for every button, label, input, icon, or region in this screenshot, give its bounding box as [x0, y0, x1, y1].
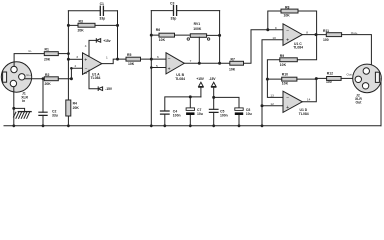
wire R1 to feedback vertical — [58, 53, 68, 55]
resistor R6 10K — [156, 28, 175, 42]
svg-text:R6: R6 — [156, 28, 160, 32]
svg-text:10K: 10K — [280, 63, 287, 67]
junction C7 on rail — [189, 124, 192, 127]
svg-text:R5: R5 — [127, 53, 131, 57]
svg-text:Out: Out — [356, 101, 363, 105]
svg-text:+15V: +15V — [196, 77, 204, 81]
wire U1C out down to R9 — [297, 35, 316, 60]
svg-text:5: 5 — [156, 64, 158, 68]
svg-text:7: 7 — [190, 59, 192, 63]
wire U1C pin10 ground vertical — [262, 40, 283, 126]
pin number 11 — [84, 71, 87, 75]
junction R10 left — [266, 78, 269, 81]
svg-text:4: 4 — [85, 44, 87, 48]
wire U1B pin5 stub — [151, 67, 166, 69]
pin number 2 — [75, 64, 77, 68]
junction R10 right / U1D out — [315, 77, 318, 80]
svg-text:R2: R2 — [45, 73, 49, 77]
svg-text:TL084: TL084 — [293, 46, 303, 50]
resistor R8 10K feedback U1C — [268, 5, 317, 34]
resistor R7 10K — [229, 58, 244, 72]
junction C4 on rail — [163, 124, 166, 127]
node label In- — [29, 49, 33, 53]
junction node C2 tap — [42, 77, 45, 80]
junction pin3 node — [67, 58, 70, 61]
svg-text:100n: 100n — [173, 114, 181, 118]
junction wiper/output — [198, 62, 201, 65]
wire U1A output jog to R5 row — [102, 59, 126, 64]
junction pin5 — [150, 66, 153, 69]
junction pin1/ground — [12, 107, 15, 110]
wire XLR pin2 to R2 (In+) — [25, 78, 44, 80]
svg-text:R12: R12 — [327, 72, 333, 76]
svg-text:R8: R8 — [285, 5, 289, 9]
svg-text:100n: 100n — [220, 114, 228, 118]
junction C8 on rail — [238, 124, 241, 127]
junction R3 right — [116, 24, 119, 27]
wire 0V rail bottom — [4, 125, 381, 127]
svg-text:2: 2 — [75, 64, 77, 68]
junction RV1 right — [218, 34, 221, 37]
svg-text:R1: R1 — [45, 48, 49, 52]
svg-text:-15V: -15V — [105, 87, 113, 91]
svg-text:TL084: TL084 — [175, 77, 185, 81]
wire +15V to C4 C7 — [165, 97, 201, 111]
capacitor C8 10u polarized — [235, 108, 252, 126]
pin number 6 — [157, 55, 159, 59]
junction R5/pin6 — [150, 58, 153, 61]
node label Out+ — [351, 31, 358, 35]
svg-text:C1: C1 — [100, 2, 104, 6]
wire R3 leads — [68, 24, 117, 26]
svg-text:10K: 10K — [282, 81, 289, 85]
op-amp U1:C TL084 — [283, 24, 303, 50]
junction R6 left — [150, 34, 153, 37]
svg-text:+: + — [286, 38, 289, 44]
svg-text:12: 12 — [270, 102, 274, 106]
svg-text:-15V: -15V — [209, 77, 217, 81]
svg-text:10K: 10K — [229, 68, 236, 72]
svg-text:−: − — [286, 95, 289, 101]
resistor R4 20K — [66, 100, 80, 116]
svg-text:33p: 33p — [99, 16, 105, 20]
svg-text:+: + — [168, 66, 171, 72]
wire U1C output — [302, 34, 326, 36]
wire R2 to U1A pin2 vertical — [58, 68, 82, 78]
wire R11 to XLR out pin2 (Out+) — [342, 35, 372, 67]
svg-text:R9: R9 — [280, 54, 284, 58]
svg-text:+: + — [286, 105, 289, 111]
wire R7 up to U1C pin9 row — [244, 30, 284, 64]
wire XLR pin3 to R1 (In-) — [14, 54, 44, 67]
svg-text:C3: C3 — [170, 2, 174, 6]
power flag -15V bottom — [209, 77, 217, 97]
svg-text:Out+: Out+ — [351, 31, 358, 35]
junction feedback/R5 row — [116, 58, 119, 61]
svg-text:33p: 33p — [171, 16, 177, 20]
junction U1B vertical on rail — [150, 124, 153, 127]
capacitor C2 33p — [39, 79, 58, 126]
op-amp U1:A TL084 — [83, 53, 102, 80]
junction ground vertical on rail — [261, 124, 264, 127]
svg-text:10u: 10u — [246, 112, 252, 116]
junction R4 on rail — [67, 124, 70, 127]
resistor R2 20K — [44, 73, 58, 86]
wire XLR pin1 down — [13, 87, 15, 126]
label J2 XLR Out — [355, 93, 362, 104]
power flag +15V — [96, 39, 110, 43]
pin number 5 — [156, 64, 158, 68]
svg-text:20K: 20K — [44, 57, 51, 61]
capacitor C4 100n — [161, 110, 181, 126]
svg-text:In: In — [22, 99, 25, 103]
svg-text:20K: 20K — [73, 106, 80, 110]
svg-text:+: + — [84, 57, 87, 63]
svg-text:8: 8 — [306, 31, 308, 35]
resistor R3 20K — [78, 20, 96, 33]
wire R4 to rail — [67, 116, 69, 126]
svg-text:In-: In- — [29, 49, 33, 53]
junction C5 on rail — [212, 124, 215, 127]
pin number 7 — [190, 59, 192, 63]
junction -15V/C5 — [212, 96, 215, 99]
svg-text:13: 13 — [270, 94, 274, 98]
wire U1A pin3 stub — [68, 58, 82, 60]
svg-text:Out-: Out- — [347, 73, 353, 77]
label J1 XLR In — [21, 92, 28, 103]
pin number 13 — [270, 94, 274, 98]
resistor R10 10K feedback U1D — [282, 73, 297, 86]
svg-text:R7: R7 — [231, 58, 235, 62]
junction R3 left — [67, 24, 70, 27]
capacitor C7 10u polarized — [186, 97, 203, 126]
capacitor C3 33p — [151, 2, 219, 21]
wire U1A pin11 to -15V flag — [89, 70, 98, 89]
resistor R11 100 — [323, 29, 342, 42]
op-amp U1:D TL084 — [283, 91, 309, 116]
pin number 4 — [85, 44, 87, 48]
svg-text:6: 6 — [157, 55, 159, 59]
svg-text:100K: 100K — [193, 27, 202, 31]
pin number 10 — [272, 36, 276, 40]
svg-text:In+: In+ — [27, 73, 32, 77]
power flag +15V bottom — [196, 77, 204, 97]
svg-text:TL084: TL084 — [299, 112, 309, 116]
junction C2 on rail — [42, 124, 45, 127]
svg-text:10K: 10K — [128, 62, 135, 66]
svg-text:11: 11 — [84, 71, 87, 75]
junction pin1 on rail — [12, 124, 15, 127]
svg-text:R11: R11 — [323, 29, 329, 33]
wire feedback vertical down to R4 — [67, 11, 69, 100]
svg-text:−: − — [168, 57, 171, 63]
resistor R5 10K — [126, 53, 141, 66]
XLR connector J1 In — [1, 62, 31, 92]
junction C3RV1/output — [218, 62, 221, 65]
pin number 1 — [106, 55, 108, 59]
wire C1 right down to R5 row — [117, 11, 119, 59]
junction pin9/R8 — [266, 28, 269, 31]
wire U1A pin4 to +15V flag — [89, 40, 96, 56]
svg-text:3: 3 — [76, 55, 78, 59]
wire U1B output row — [184, 62, 230, 64]
trimmer RV1 100K — [187, 22, 210, 63]
wire rail up right side to XLR shell — [380, 78, 382, 125]
op-amp U1:B TL084 — [166, 53, 185, 81]
pin number 14 — [307, 97, 311, 101]
svg-text:10: 10 — [272, 36, 276, 40]
svg-text:33u: 33u — [52, 114, 58, 118]
svg-text:10K: 10K — [159, 38, 166, 42]
capacitor C5 100n — [209, 109, 227, 126]
svg-text:10K: 10K — [284, 14, 291, 18]
junction pin2 corner — [70, 67, 73, 70]
XLR connector J2 Out — [353, 64, 382, 93]
svg-text:14: 14 — [307, 97, 311, 101]
junction R2 right — [70, 77, 73, 80]
pin number 12 — [270, 102, 274, 106]
junction U1C out — [315, 33, 318, 36]
svg-text:R10: R10 — [282, 73, 288, 77]
wire -15V node to C5 C8 — [214, 97, 239, 109]
wire U1D output up to Out- row — [302, 79, 316, 102]
node label In+ — [27, 73, 32, 77]
resistor R1 20K — [44, 48, 58, 62]
ground chassis symbol — [14, 108, 32, 118]
svg-text:10u: 10u — [197, 112, 203, 116]
wire U1D pin12 stub — [262, 105, 283, 107]
node label Out- — [347, 73, 353, 77]
svg-text:20K: 20K — [78, 28, 85, 32]
svg-text:RV1: RV1 — [194, 22, 201, 26]
wire R12 to XLR out pin3 (Out-) — [341, 77, 355, 79]
junction pin12 — [261, 104, 264, 107]
pin number 8 — [306, 31, 308, 35]
wire R5 to U1B pin6 — [141, 58, 167, 60]
pin number 3 — [76, 55, 78, 59]
svg-text:9: 9 — [275, 26, 277, 30]
power flag -15V — [98, 87, 113, 91]
wire R9 left down to U1D pin13 — [267, 60, 283, 98]
svg-text:100: 100 — [323, 38, 329, 42]
pin number 9 — [275, 26, 277, 30]
svg-text:100: 100 — [326, 80, 332, 84]
svg-text:20K: 20K — [45, 82, 52, 86]
svg-text:R3: R3 — [79, 20, 83, 24]
svg-text:−: − — [286, 28, 289, 34]
junction C7 tap — [189, 95, 192, 98]
wire U1B left vertical to rail — [150, 11, 152, 126]
wire RV1 right terminal to C3 vertical — [207, 11, 220, 64]
svg-text:R4: R4 — [73, 101, 77, 105]
svg-text:TL084: TL084 — [91, 76, 101, 80]
svg-text:+15v: +15v — [103, 39, 110, 43]
capacitor C1 33p — [68, 2, 117, 20]
wire R10 leads — [267, 77, 326, 80]
wire R6 leads — [151, 34, 190, 36]
junction R1 node — [67, 52, 70, 55]
svg-text:1: 1 — [106, 55, 108, 59]
resistor R12 100 — [326, 72, 341, 85]
resistor R9 10K — [280, 54, 298, 67]
